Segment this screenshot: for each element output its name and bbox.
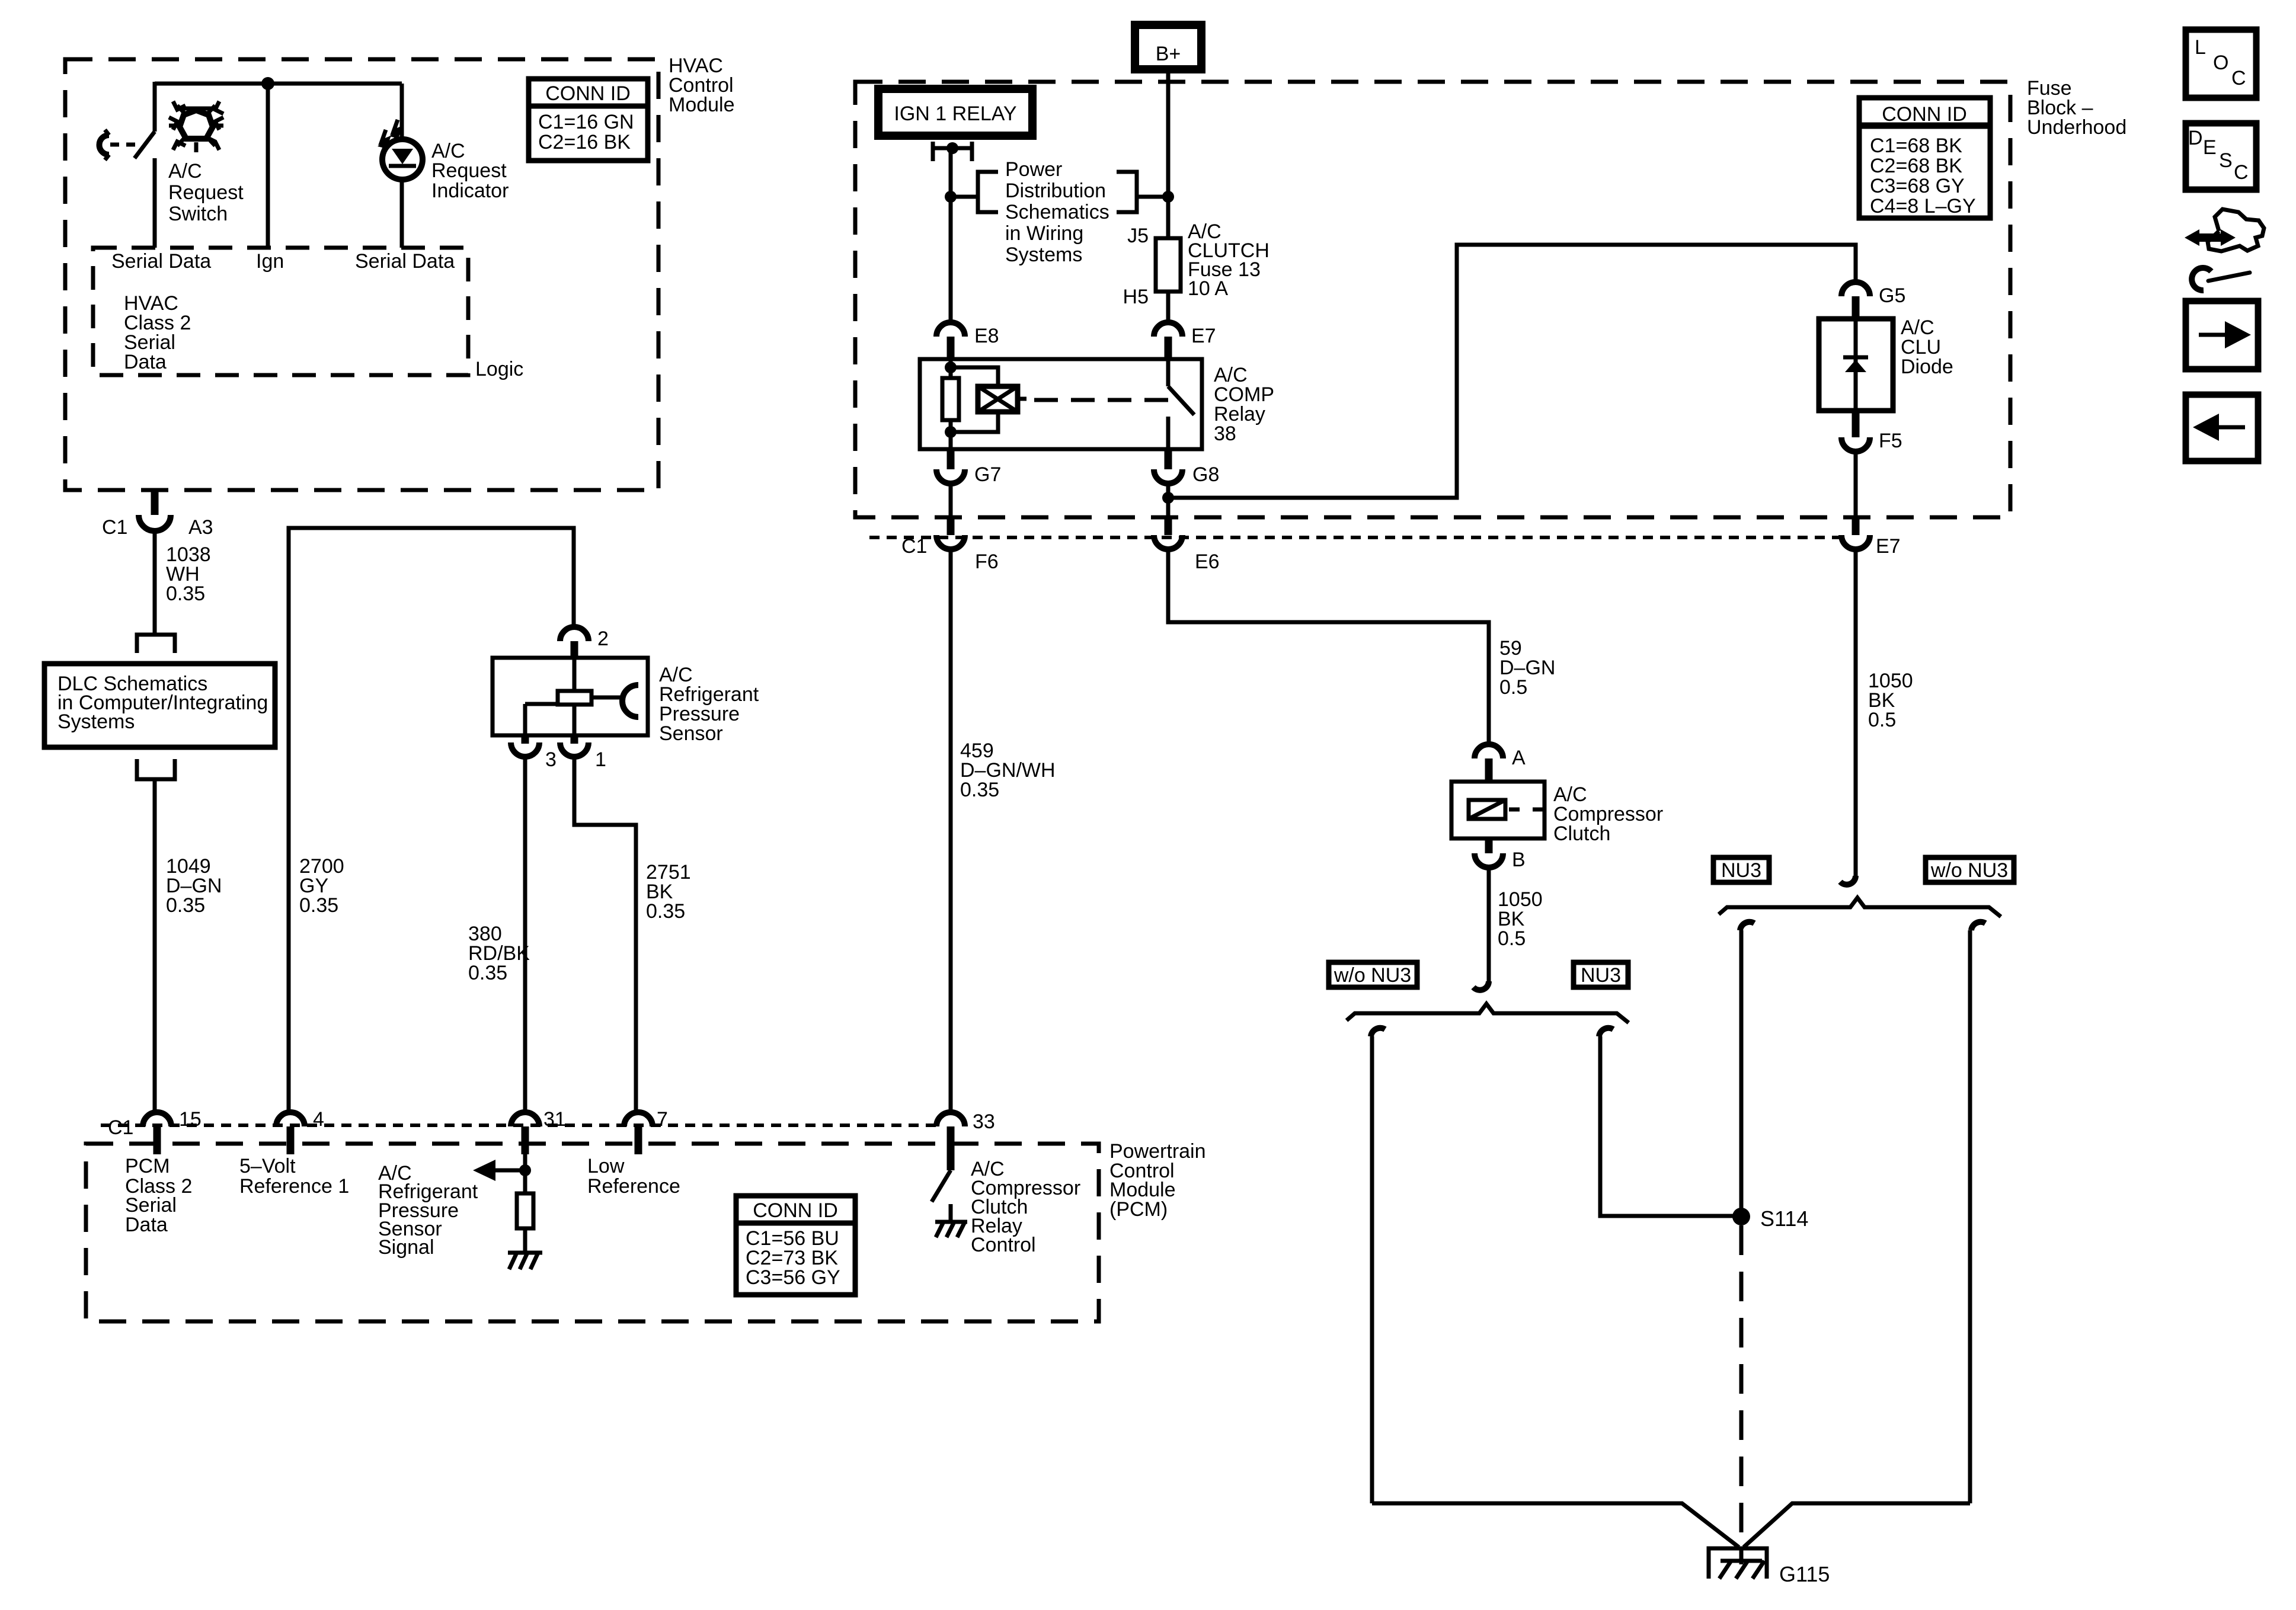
- off-page bracket to DLC: [137, 635, 175, 653]
- wire G7 to F6: [949, 484, 953, 535]
- svg-text:D: D: [2188, 127, 2203, 149]
- vehicle repair icon: [2185, 209, 2264, 290]
- wire F5 to E7: [1854, 452, 1858, 535]
- connector B: [1475, 838, 1526, 871]
- svg-text:Schematics: Schematics: [1005, 201, 1109, 223]
- connector E7 (fuse block): [1841, 535, 1901, 558]
- svg-text:Signal: Signal: [378, 1236, 434, 1259]
- svg-text:A: A: [1512, 747, 1526, 769]
- svg-text:0.35: 0.35: [166, 894, 205, 917]
- CONN ID box (HVAC): [529, 79, 648, 161]
- svg-text:H5: H5: [1123, 286, 1149, 308]
- svg-text:F5: F5: [1879, 430, 1902, 452]
- svg-text:A/C: A/C: [168, 160, 202, 183]
- svg-text:0.5: 0.5: [1868, 709, 1896, 731]
- branch w/o NU3 (from B): [1370, 1036, 1374, 1503]
- wire 380: [523, 757, 527, 1113]
- svg-text:J5: J5: [1127, 225, 1149, 247]
- svg-text:E7: E7: [1191, 325, 1216, 347]
- svg-text:10 A: 10 A: [1188, 277, 1228, 300]
- A/C request switch: [100, 82, 155, 248]
- connector E7 (relay): [1154, 322, 1216, 360]
- PCM connector dotted line: [101, 1124, 936, 1127]
- wire 1038: [153, 531, 157, 635]
- node: G8 junction: [1162, 492, 1174, 504]
- off-page bracket from DLC: [137, 759, 175, 779]
- svg-text:C1=68 BK: C1=68 BK: [1870, 135, 1962, 157]
- connector E6: [1154, 535, 1220, 573]
- svg-text:NU3: NU3: [1581, 964, 1621, 987]
- wire 1050 BK (from E7): [1840, 549, 1856, 885]
- svg-text:C2=68 BK: C2=68 BK: [1870, 155, 1962, 177]
- E7 option splice brace: [1719, 898, 2001, 930]
- HVAC Control Module dashed box: [65, 59, 658, 490]
- node: PD tap (left): [945, 191, 957, 203]
- svg-text:C2=16 BK: C2=16 BK: [538, 131, 631, 153]
- svg-text:Control: Control: [971, 1234, 1036, 1256]
- fuse block connector dotted line: [869, 536, 1840, 539]
- wire from IGN 1 relay: [949, 148, 953, 324]
- svg-text:C: C: [2231, 67, 2246, 89]
- svg-text:E8: E8: [974, 325, 999, 347]
- dashed wire S114 to G115: [1739, 1225, 1744, 1564]
- svg-text:C1: C1: [901, 535, 927, 558]
- svg-text:Systems: Systems: [1005, 244, 1082, 266]
- wire: top bus: [155, 82, 402, 86]
- DESC icon: [2186, 123, 2256, 190]
- LED A/C request indicator: [378, 84, 423, 248]
- svg-text:15: 15: [179, 1108, 202, 1131]
- svg-text:F6: F6: [975, 550, 999, 573]
- svg-text:Data: Data: [125, 1214, 168, 1236]
- ground G115: [1709, 1548, 1830, 1586]
- connector pin 31: [511, 1108, 566, 1154]
- svg-text:5–Volt: 5–Volt: [239, 1155, 296, 1177]
- ground (PCM internal): [508, 1253, 542, 1269]
- svg-text:Data: Data: [124, 351, 167, 373]
- connector G8: [1154, 449, 1219, 486]
- svg-text:C: C: [2234, 161, 2249, 184]
- Power Distribution reference: [951, 172, 1168, 212]
- svg-text:Ign: Ign: [256, 250, 284, 273]
- svg-text:0.5: 0.5: [1498, 927, 1526, 950]
- connector G7: [936, 449, 1001, 486]
- w/o NU3 box (E7 splice right): [1926, 857, 2014, 882]
- svg-text:E: E: [2203, 136, 2217, 159]
- svg-text:CONN ID: CONN ID: [1882, 103, 1967, 126]
- node: PD tap (right): [1162, 191, 1174, 203]
- svg-text:CONN ID: CONN ID: [753, 1199, 838, 1222]
- svg-text:0.35: 0.35: [468, 962, 507, 984]
- wire 1050 BK (from B): [1473, 868, 1489, 990]
- svg-text:Clutch: Clutch: [1553, 822, 1610, 845]
- svg-text:S114: S114: [1760, 1206, 1808, 1231]
- connector F5: [1841, 411, 1902, 452]
- wire w/o NU3 right to ground: [1744, 1503, 1970, 1547]
- connector G5: [1841, 282, 1905, 320]
- B option splice brace: [1347, 1004, 1629, 1036]
- connector E8: [936, 322, 999, 360]
- svg-text:C1: C1: [102, 516, 127, 539]
- connector C1/A3: [102, 490, 213, 539]
- w/o NU3 box (B splice left): [1329, 962, 1417, 987]
- svg-text:Sensor: Sensor: [659, 722, 723, 745]
- IGN 1 RELAY bracket: [933, 142, 972, 161]
- DLC Schematics box: [44, 664, 275, 747]
- signal arrow: [473, 1160, 531, 1181]
- svg-text:E6: E6: [1195, 550, 1220, 573]
- svg-text:Indicator: Indicator: [431, 180, 509, 202]
- NU3 box (B splice right): [1574, 962, 1628, 987]
- svg-text:NU3: NU3: [1721, 859, 1761, 882]
- connector pin 7: [624, 1108, 668, 1154]
- connector pin 4: [276, 1108, 324, 1154]
- A/C CLU Diode: [1819, 319, 1893, 411]
- svg-text:33: 33: [973, 1110, 995, 1133]
- svg-text:S: S: [2219, 149, 2233, 172]
- svg-text:3: 3: [545, 748, 557, 771]
- svg-text:E7: E7: [1876, 535, 1901, 558]
- branch w/o NU3 (from E7): [1968, 930, 1972, 1503]
- svg-text:Underhood: Underhood: [2027, 116, 2126, 139]
- svg-text:Logic: Logic: [475, 358, 523, 380]
- svg-text:0.35: 0.35: [166, 582, 205, 605]
- svg-text:G8: G8: [1192, 463, 1219, 486]
- svg-text:7: 7: [657, 1108, 668, 1131]
- B+ box: [1135, 25, 1201, 69]
- svg-text:C3=56 GY: C3=56 GY: [746, 1266, 840, 1289]
- svg-text:w/o NU3: w/o NU3: [1930, 859, 2008, 882]
- wire w/o NU3 left to ground: [1372, 1503, 1739, 1547]
- svg-text:G115: G115: [1779, 1562, 1830, 1586]
- connector A: [1475, 744, 1526, 783]
- svg-text:C3=68 GY: C3=68 GY: [1870, 175, 1965, 197]
- svg-text:38: 38: [1214, 422, 1236, 445]
- ground (relay control): [935, 1222, 967, 1237]
- resistor (PCM pulldown): [517, 1154, 533, 1251]
- svg-text:Power: Power: [1005, 158, 1062, 181]
- svg-text:C1=16 GN: C1=16 GN: [538, 111, 634, 133]
- svg-text:1: 1: [595, 748, 606, 771]
- branch NU3 (from B): [1600, 1036, 1741, 1216]
- svg-text:Switch: Switch: [168, 203, 228, 225]
- CONN ID box (PCM): [736, 1196, 855, 1295]
- PCM dashed box: [86, 1144, 1099, 1321]
- NU3 box (E7 splice left): [1713, 857, 1769, 882]
- svg-text:O: O: [2213, 52, 2228, 74]
- forward arrow icon: [2186, 301, 2258, 369]
- svg-text:Serial Data: Serial Data: [355, 250, 455, 273]
- connector pin C1/15: [108, 1108, 202, 1154]
- svg-text:Module: Module: [669, 94, 735, 116]
- svg-text:IGN 1 RELAY: IGN 1 RELAY: [894, 103, 1016, 125]
- Logic inner dashed box: [93, 248, 468, 375]
- svg-text:B+: B+: [1156, 43, 1181, 65]
- Fuse Block - Underhood dashed box: [855, 82, 2010, 517]
- svg-text:w/o NU3: w/o NU3: [1334, 964, 1411, 987]
- svg-text:31: 31: [543, 1108, 566, 1131]
- IGN 1 RELAY box: [878, 89, 1032, 136]
- splice S114: [1732, 1206, 1808, 1231]
- back arrow icon: [2186, 395, 2258, 461]
- svg-text:Request: Request: [168, 181, 244, 204]
- snowflake icon: [169, 101, 223, 152]
- wire 59: E6 to clutch A: [1168, 549, 1489, 744]
- svg-text:2: 2: [597, 628, 609, 650]
- fuse A/C CLUTCH Fuse 13: [1156, 238, 1181, 324]
- svg-text:G5: G5: [1879, 284, 1905, 307]
- svg-text:Reference 1: Reference 1: [239, 1175, 349, 1198]
- svg-text:L: L: [2195, 36, 2206, 59]
- svg-text:A3: A3: [188, 516, 213, 539]
- svg-text:4: 4: [313, 1108, 324, 1131]
- svg-text:Request: Request: [431, 159, 507, 182]
- relay switch contact: [1168, 359, 1194, 449]
- svg-text:G7: G7: [974, 463, 1001, 486]
- wire 459: [949, 550, 953, 1113]
- wire 1049: [153, 779, 157, 1113]
- svg-text:0.35: 0.35: [299, 894, 338, 917]
- wire G8 to E6: [1166, 484, 1171, 535]
- svg-text:(PCM): (PCM): [1109, 1198, 1168, 1221]
- svg-text:PCM: PCM: [125, 1155, 170, 1177]
- CONN ID box (fuse block): [1859, 98, 1990, 218]
- svg-text:Serial Data: Serial Data: [111, 250, 211, 273]
- LOC icon: [2186, 30, 2256, 98]
- node: bus junction: [261, 77, 274, 90]
- svg-text:in Wiring: in Wiring: [1005, 222, 1083, 245]
- A/C compressor clutch relay control switch: [932, 1170, 951, 1221]
- A/C Compressor Clutch: [1451, 782, 1544, 838]
- svg-text:Reference: Reference: [587, 1175, 680, 1198]
- svg-text:C1: C1: [108, 1116, 133, 1139]
- svg-text:Low: Low: [587, 1155, 625, 1177]
- svg-text:0.35: 0.35: [960, 779, 999, 801]
- A/C COMP Relay box: [920, 359, 1202, 449]
- svg-text:CONN ID: CONN ID: [545, 82, 631, 105]
- svg-text:Diode: Diode: [1901, 356, 1953, 378]
- connector pin 33: [936, 1110, 995, 1170]
- svg-text:0.35: 0.35: [646, 900, 685, 923]
- wire to A/C CLU diode: [1168, 245, 1856, 498]
- A/C Refrigerant Pressure Sensor: [493, 627, 648, 757]
- B+ wire: [1166, 69, 1171, 238]
- branch NU3 (from E7): [1739, 930, 1744, 1217]
- svg-text:C4=8 L–GY: C4=8 L–GY: [1870, 195, 1976, 217]
- svg-text:0.5: 0.5: [1499, 676, 1527, 699]
- wire 2751: [574, 757, 636, 1113]
- wire 2700: [289, 528, 574, 1113]
- connector C1/F6: [901, 535, 999, 573]
- relay coil circuit: [942, 359, 1172, 449]
- svg-text:Distribution: Distribution: [1005, 180, 1106, 202]
- wire: Ign drop: [266, 84, 270, 248]
- svg-text:B: B: [1512, 849, 1526, 871]
- svg-text:Systems: Systems: [57, 710, 135, 733]
